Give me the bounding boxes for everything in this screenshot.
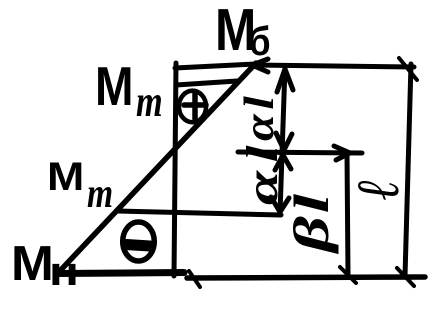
tick slash at bottom of beta-l line xyxy=(340,267,356,283)
top edge of moment diagram (M_b level) xyxy=(175,64,256,68)
arrow down at bottom of alpha-l line xyxy=(271,197,289,212)
bottom edge of moment diagram (M_n level) xyxy=(57,273,184,274)
tick slash top right corner xyxy=(399,58,417,80)
diagonal moment line M_b to M_n xyxy=(57,63,256,274)
alpha-l dimension line vertical xyxy=(280,67,285,213)
svg-text:M: M xyxy=(11,236,54,291)
beta-l dimension line vertical xyxy=(347,153,348,275)
right dimension line l (full height) xyxy=(405,64,411,276)
upper step line (M_t top level) xyxy=(176,81,237,85)
top dimension line (full width) xyxy=(252,65,414,67)
svg-text:αl: αl xyxy=(238,137,287,205)
svg-text:M: M xyxy=(95,55,133,117)
svg-text:т: т xyxy=(136,77,163,126)
svg-text:ℓ: ℓ xyxy=(345,179,411,200)
plus sign circle xyxy=(179,91,206,123)
svg-text:н: н xyxy=(49,249,79,294)
svg-text:αl: αl xyxy=(236,92,282,141)
mid horizontal dimension line (zero moment level) xyxy=(238,152,362,153)
arrow up at top of alpha-l line xyxy=(277,69,293,92)
tick slash at bottom right corner xyxy=(397,268,414,286)
svg-text:т: т xyxy=(87,171,113,217)
plus sign bars xyxy=(184,93,206,119)
minus sign circle xyxy=(123,222,155,261)
minus sign bar xyxy=(126,245,150,247)
tick slash at left end of bottom dimension line xyxy=(189,271,200,287)
svg-text:βl: βl xyxy=(284,191,339,254)
svg-text:M: M xyxy=(47,154,84,198)
arrow down at mid of alpha-l line xyxy=(276,133,292,150)
lower step line (M_t bottom level) xyxy=(117,211,281,215)
arrow at apex of top dimension line xyxy=(252,59,268,72)
bottom dimension line xyxy=(187,277,425,278)
arrow up below mid on alpha-l line xyxy=(275,155,291,170)
svg-text:б: б xyxy=(249,19,271,64)
arrow on mid dimension line pointing right xyxy=(334,146,350,160)
axis: column centerline xyxy=(174,63,176,276)
